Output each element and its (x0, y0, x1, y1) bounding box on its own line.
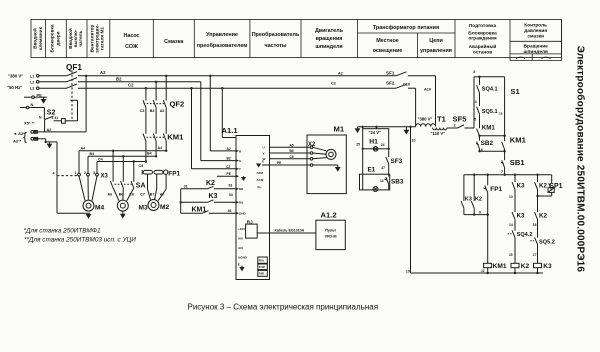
pin labels A2 B2 C2 PE at A1.1 (226, 147, 232, 176)
motor M1 block (307, 135, 346, 194)
wire 2-3 riser to S1 chain (474, 77, 480, 128)
svg-text:Цепи: Цепи (429, 38, 443, 44)
svg-text:{: { (23, 130, 27, 144)
contactor KM1 aux contact (wire 36) (181, 211, 236, 214)
svg-text:A2: A2 (47, 128, 52, 132)
N terminal (20, 106, 44, 109)
svg-text:2: 2 (84, 171, 86, 175)
ground arrow under M3 (120, 211, 126, 218)
svg-text:Х5* **: Х5* ** (24, 121, 35, 126)
svg-text:N: N (31, 102, 34, 107)
PE terminal (24, 96, 47, 99)
KM1 self-hold contact right branch (502, 77, 505, 151)
svg-text:25: 25 (356, 143, 360, 147)
transformer T1 secondary winding (433, 128, 447, 130)
svg-text:STOP: STOP (259, 267, 266, 269)
A1.2 inner text (325, 229, 337, 239)
svg-text:Контроль: Контроль (524, 23, 547, 29)
wire labels A4 B4 C4 (81, 146, 163, 168)
svg-text:"110 V": "110 V" (431, 131, 446, 136)
svg-text:C2: C2 (226, 165, 230, 169)
svg-text:12: 12 (481, 269, 485, 273)
svg-text:останов: останов (473, 51, 492, 56)
wire phase C2 (line L3) (39, 87, 416, 89)
svg-text:K2: K2 (206, 180, 215, 187)
ground arrow at 110V line end (355, 127, 361, 133)
converter connector RJ (246, 224, 258, 238)
return wire 10 down to bottom rail (410, 127, 412, 273)
wire phase B2 (line L2) (39, 81, 201, 83)
svg-text:34: 34 (229, 193, 233, 197)
svg-text:ACM: ACM (257, 178, 264, 182)
wire A2 to X5 (34, 131, 86, 133)
svg-text:B3: B3 (150, 109, 155, 113)
stop button SB2 (476, 142, 506, 153)
svg-text:L3: L3 (30, 87, 34, 91)
ground arrow inside A1.1 at PE pin (241, 176, 246, 181)
circuit breaker QF2 (143, 76, 166, 108)
svg-text:M0: M0 (239, 187, 243, 191)
svg-text:"50 Hz": "50 Hz" (7, 85, 22, 90)
svg-text:СОЖ: СОЖ (125, 44, 138, 50)
schematic labels (7, 63, 563, 276)
svg-text:B2: B2 (116, 76, 122, 81)
svg-text:Двигатель: Двигатель (315, 28, 344, 34)
svg-text:"380 V": "380 V" (8, 73, 23, 78)
svg-text:A4: A4 (81, 147, 86, 151)
svg-text:13: 13 (509, 195, 513, 199)
svg-text:Вращение: Вращение (524, 44, 549, 50)
converter indicator windows (258, 257, 268, 276)
svg-text:RJ: RJ (247, 219, 253, 224)
svg-text:C10: C10 (403, 83, 410, 87)
motor M1 (326, 149, 336, 159)
ground arrow inside A1.1 bottom (pin E) (239, 266, 244, 272)
labels X3 pins (75, 171, 96, 175)
svg-text:C5: C5 (290, 155, 294, 159)
svg-text:Управление: Управление (206, 32, 238, 38)
svg-text:1: 1 (75, 171, 77, 175)
svg-text:освещение: освещение (373, 48, 403, 54)
svg-text:А2**: А2** (13, 138, 22, 143)
svg-text:K3: K3 (517, 213, 525, 220)
terminal block X3 (78, 151, 99, 176)
svg-text:KM1: KM1 (510, 136, 527, 145)
pins 25 24 (356, 143, 384, 147)
svg-text:3: 3 (93, 171, 95, 175)
thermal overload FP1 (power elements) (142, 170, 168, 175)
limit switch contact SQ5.1 (477, 107, 480, 129)
svg-text:A5: A5 (290, 143, 294, 147)
wire V output B5 (270, 152, 311, 154)
junction dots on power lines (85, 75, 212, 90)
limit switch contact SQ4.1 (477, 85, 480, 106)
svg-text:Смазка: Смазка (164, 39, 184, 45)
svg-text:C3: C3 (140, 109, 145, 113)
svg-text:B6: B6 (119, 192, 124, 196)
svg-text:3: 3 (473, 70, 475, 74)
svg-text:K2: K2 (539, 213, 547, 220)
svg-text:A2: A2 (100, 70, 106, 75)
svg-text:A4: A4 (158, 146, 163, 150)
svg-text:KM1: KM1 (482, 125, 496, 132)
svg-text:*Для станка 250ИТВМФ1: *Для станка 250ИТВМФ1 (24, 228, 101, 235)
svg-text:PE: PE (277, 161, 281, 165)
svg-text:A2: A2 (227, 147, 231, 151)
wire PE output (262, 164, 310, 166)
A1.1 indicator window texts (259, 261, 266, 276)
svg-text:17: 17 (533, 253, 537, 257)
svg-text:L2: L2 (30, 80, 34, 84)
PE down wire to motor ground rail (57, 142, 90, 213)
breaker SF5 (wire 2) (447, 125, 474, 128)
svg-text:16: 16 (533, 223, 537, 227)
control cable EG1010A (257, 232, 316, 234)
svg-text:SB3: SB3 (391, 178, 404, 185)
svg-text:SA: SA (136, 182, 146, 189)
svg-text:VFD-M: VFD-M (325, 235, 337, 239)
svg-text:давления: давления (524, 29, 547, 34)
wire C2 to converter A1.1 pin T (192, 88, 237, 169)
svg-text:AFM: AFM (257, 171, 264, 175)
ground arrow near T1 (404, 127, 410, 135)
svg-text:C6: C6 (129, 192, 134, 196)
pressure switch SP1 (538, 175, 555, 196)
motor M3 (117, 200, 128, 211)
svg-text:B5: B5 (290, 149, 294, 153)
wire bus A4 (79, 141, 167, 152)
wire bus B4 (88, 141, 157, 158)
svg-text:X3: X3 (101, 173, 109, 179)
frequency converter A1.1 block (236, 136, 270, 280)
wires SA to motor M3 (113, 188, 134, 201)
wires X2 to motor M1 (313, 147, 338, 165)
svg-text:SF1: SF1 (386, 70, 395, 75)
svg-text:SB2: SB2 (481, 140, 494, 147)
work lamp E1 box (360, 174, 390, 190)
ground arrow inside A1.1 right (pin E) (256, 164, 261, 168)
svg-text:вращения: вращения (316, 36, 343, 42)
svg-text:E1: E1 (368, 166, 376, 173)
ground arrow in M1 block (335, 165, 341, 172)
lamp E1 (363, 149, 378, 192)
input terminal L3 (36, 87, 39, 90)
svg-text:смазки: смазки (527, 35, 544, 40)
wire C2 branch to A1.1 fan input (221, 87, 236, 138)
dashed optional wire 4 to X3 (57, 175, 78, 177)
svg-text:5: 5 (474, 117, 476, 121)
svg-text:Подготовка: Подготовка (469, 23, 497, 29)
wire A10 down to T1 (435, 76, 437, 127)
motor M2 (148, 200, 159, 211)
svg-text:U: U (263, 146, 265, 150)
svg-text:Кабель EG1010A: Кабель EG1010A (275, 229, 305, 233)
contactor KM1 aux contact in chain (477, 129, 506, 141)
relay contact K3 (KM1 branch left) (461, 175, 464, 215)
wires X3 to motor M4 (79, 176, 97, 201)
terminal block X2 (310, 146, 313, 166)
breaker SF1 on line A2 (396, 72, 407, 76)
pins 31 33 (184, 184, 233, 189)
contactor KM1 main contacts (143, 108, 166, 141)
svg-text:Вводной: Вводной (32, 28, 38, 49)
svg-text:T1: T1 (437, 115, 447, 124)
svg-text:QF2: QF2 (170, 99, 185, 108)
headstock switch block S1 chain (478, 76, 504, 85)
svg-text:C2: C2 (128, 83, 134, 88)
wire PE from X5 (34, 139, 57, 144)
relay contact K3 (K2 branch top) (512, 175, 515, 212)
svg-text:V: V (263, 151, 265, 155)
svg-text:FWD: FWD (259, 274, 265, 276)
svg-text:Пульт: Пульт (325, 229, 336, 233)
ground arrow under M4 (86, 214, 92, 219)
svg-text:K2: K2 (539, 182, 547, 189)
svg-text:K3: K3 (517, 182, 525, 189)
svg-text:E: E (238, 263, 240, 267)
svg-text:SQ4.1: SQ4.1 (482, 86, 498, 92)
svg-text:14: 14 (509, 223, 513, 227)
svg-text:T: T (239, 167, 241, 171)
svg-text:C4: C4 (139, 164, 144, 168)
svg-text:SQ5.1: SQ5.1 (482, 109, 498, 115)
svg-text:18: 18 (499, 112, 503, 116)
header: door interlock (50, 24, 61, 52)
svg-text:A1.2: A1.2 (321, 211, 337, 220)
wire 110V left from T1 (358, 126, 416, 128)
header table texts (32, 23, 549, 56)
svg-text:Блокировка: Блокировка (50, 24, 55, 52)
svg-text:Насос: Насос (123, 33, 139, 39)
svg-text:M4: M4 (95, 204, 104, 211)
circuit breaker QF1 (67, 71, 78, 121)
drop from line L1 to X5 (85, 76, 87, 132)
relay contact K2 (K3 branch top) (535, 175, 539, 198)
svg-text:X2: X2 (308, 142, 316, 148)
svg-text:15: 15 (509, 253, 513, 257)
svg-text:двери: двери (56, 31, 61, 45)
labels K3 K2 on KM1 branch (465, 196, 482, 202)
svg-text:31: 31 (184, 184, 188, 188)
svg-text:FP1: FP1 (168, 170, 180, 177)
svg-text:6: 6 (481, 148, 483, 152)
svg-text:H1: H1 (369, 138, 378, 145)
header: input terminal block (32, 26, 43, 50)
wire C10 down to T1 (415, 88, 417, 126)
svg-text:Преобразователь: Преобразователь (252, 31, 300, 38)
svg-text:KM1: KM1 (493, 263, 507, 270)
svg-text:B4: B4 (147, 152, 152, 156)
push switch SB3 (384, 177, 388, 190)
wires FP1 to motor M2 (148, 174, 167, 200)
wire U output A5 (270, 146, 311, 148)
bottom rail wire 10 (411, 272, 544, 274)
header: lubrication pressure control (524, 23, 549, 55)
keypad A1.2 block (316, 220, 345, 249)
svg-text:KM1: KM1 (192, 207, 207, 214)
svg-text:шпинделя: шпинделя (315, 44, 342, 50)
svg-text:SF3: SF3 (391, 158, 403, 165)
svg-text:47: 47 (381, 166, 385, 170)
wire labels A5 B5 C5 (277, 143, 294, 165)
svg-text:A1.1: A1.1 (222, 126, 239, 135)
thermal overload FP1 aux contact (484, 175, 488, 264)
svg-text:4: 4 (475, 100, 477, 104)
svg-text:M1: M1 (334, 125, 345, 134)
svg-text:+10V: +10V (238, 227, 245, 231)
relay contact K3 (wire 34) (181, 200, 236, 203)
wire phase A2 (line L1) (39, 75, 436, 77)
svg-text:S: S (239, 159, 241, 163)
svg-text:7: 7 (501, 170, 503, 174)
switch S2 (door interlock) (44, 100, 77, 123)
limit switch SQ5.2 (530, 237, 537, 263)
svg-text:2: 2 (454, 123, 456, 127)
svg-text:A10: A10 (424, 88, 431, 92)
A1.1 internal pin texts (238, 146, 266, 267)
svg-text:K3: K3 (465, 196, 472, 202)
svg-text:FP1: FP1 (490, 186, 502, 193)
svg-text:"24 V": "24 V" (369, 130, 382, 135)
svg-text:SB1: SB1 (510, 158, 526, 167)
wire B2 to converter A1.1 pin S (201, 82, 236, 161)
svg-text:M3: M3 (139, 204, 148, 211)
svg-text:L1: L1 (30, 74, 34, 78)
svg-text:"380 V": "380 V" (418, 117, 433, 122)
svg-text:10: 10 (412, 139, 416, 143)
svg-text:K3: K3 (543, 263, 552, 270)
input terminal L2 (36, 81, 39, 84)
svg-text:**Для станка 250ИТВМ03 исп. с: **Для станка 250ИТВМ03 исп. с УЦИ (24, 236, 136, 243)
svg-text:чатель: чатель (78, 30, 83, 46)
svg-text:A6: A6 (108, 192, 113, 196)
svg-text:K2: K2 (521, 263, 530, 270)
svg-text:24: 24 (381, 143, 385, 147)
svg-text:частоты: частоты (264, 43, 286, 49)
start button SB1 (501, 151, 505, 175)
svg-text:Трансформатор питания: Трансформатор питания (373, 24, 439, 31)
wire labels A6 B6 C6 (108, 192, 165, 196)
svg-text:C4: C4 (98, 157, 103, 161)
cam switch SA (110, 151, 133, 188)
svg-text:33: 33 (228, 184, 232, 188)
svg-text:B4: B4 (90, 152, 95, 156)
svg-text:SQ4.2: SQ4.2 (517, 232, 533, 238)
svg-text:1 41: 1 41 (52, 116, 59, 120)
svg-text:S1: S1 (510, 87, 520, 96)
svg-text:Рисунок 3 – Схема электрическа: Рисунок 3 – Схема электрическая принципи… (188, 302, 379, 311)
micro N PE at X5 (35, 130, 39, 141)
svg-text:SP1: SP1 (549, 183, 562, 190)
svg-text:клеммник: клеммник (38, 26, 43, 50)
svg-text:AGND: AGND (238, 256, 248, 260)
relay coil K2 (511, 263, 519, 274)
svg-text:GND: GND (239, 212, 247, 216)
svg-text:PE: PE (35, 137, 39, 141)
header: input switch (67, 28, 83, 49)
svg-text:B2: B2 (227, 157, 231, 161)
svg-text:36: 36 (228, 209, 232, 213)
svg-text:преобразователем: преобразователем (197, 42, 248, 49)
svg-text:управления: управления (420, 48, 452, 54)
svg-text:SF5: SF5 (453, 115, 468, 124)
svg-text:ACI: ACI (238, 246, 243, 250)
transformer T1 primary winding (416, 124, 436, 127)
svg-text:RUN: RUN (259, 261, 264, 263)
labels L1 L2 L3 (30, 74, 34, 90)
svg-text:QF1: QF1 (66, 63, 82, 72)
ground arrow under S2 PE junction (47, 144, 53, 149)
svg-text:B7: B7 (150, 192, 155, 196)
svg-text:Местное: Местное (376, 38, 399, 44)
wire PE to converter A1.1 (217, 175, 236, 177)
svg-text:A3: A3 (160, 109, 165, 113)
svg-text:M1: M1 (239, 201, 243, 205)
relay contact K2 (second, K3 branch) (535, 196, 538, 238)
node 9 merge wire (464, 213, 489, 215)
svg-text:A2: A2 (338, 71, 343, 75)
wire W output C5 (270, 158, 311, 160)
svg-text:SF2: SF2 (386, 80, 395, 85)
svg-text:шпинделя: шпинделя (524, 50, 549, 55)
header: preparation / guard / e-stop (468, 23, 497, 56)
input terminal L1 (36, 75, 39, 78)
wire labels A2 C2 right (331, 71, 431, 91)
svg-text:A7: A7 (160, 192, 165, 196)
svg-text:PE: PE (37, 93, 43, 98)
svg-text:14: 14 (380, 179, 384, 183)
svg-text:K2: K2 (475, 196, 482, 202)
wire A2 to converter A1.1 pin R (210, 76, 236, 151)
A1.1 pin arrow marks (236, 150, 239, 215)
breaker SF3 (386, 149, 389, 177)
svg-text:Аварийный: Аварийный (469, 43, 497, 50)
spindle-rotation direction arc marks in header (516, 57, 525, 59)
breaker SF2 on line C2 (396, 84, 407, 88)
svg-text:9: 9 (479, 210, 481, 214)
indicator lamp H1 branch (24V box) (362, 127, 390, 151)
function-zone header table frame (31, 20, 562, 61)
svg-text:ограждения: ограждения (468, 37, 496, 42)
relay contact K2 (wire 31-33) (181, 186, 236, 189)
wire bus C4 (97, 141, 147, 163)
svg-text:N: N (35, 130, 37, 134)
terminal block X5 (31, 131, 38, 141)
svg-text:Электрооборудование 250ИТВМ.00: Электрооборудование 250ИТВМ.00.000РЭ16 (575, 46, 587, 273)
motor M4 (83, 200, 94, 211)
relay contact K2 (KM1 branch right) (471, 175, 474, 215)
limit switch SQ4.2 (508, 230, 515, 263)
S2 lower wire to X5 row (44, 120, 46, 132)
relay coil K3 (534, 263, 542, 274)
ground PE arrow (41, 99, 47, 104)
labels C3 B3 A3 (140, 109, 165, 113)
svg-text:E: E (262, 160, 264, 164)
svg-text:гателя М1: гателя М1 (100, 27, 105, 50)
svg-text:K3: K3 (209, 193, 218, 200)
svg-text:KM1: KM1 (167, 132, 184, 141)
svg-text:M2: M2 (160, 204, 169, 211)
svg-text:SQ5.2: SQ5.2 (539, 239, 555, 245)
svg-text:AVI: AVI (238, 237, 243, 241)
header: fan of motor M1 (89, 24, 104, 53)
svg-text:D+: D+ (258, 185, 262, 189)
node 31 common vertical (180, 189, 182, 213)
control network top rail (node 7) (464, 174, 552, 176)
svg-text:C7: C7 (140, 192, 145, 196)
contactor coil KM1 (484, 263, 492, 274)
svg-text:C2: C2 (331, 81, 336, 85)
